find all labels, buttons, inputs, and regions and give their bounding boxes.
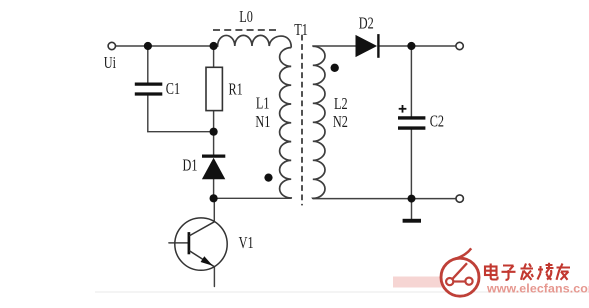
- char shao: [538, 263, 554, 280]
- svg-text:D1: D1: [183, 157, 198, 175]
- char fa: [521, 264, 534, 280]
- plus sign of C2: [399, 105, 407, 113]
- node D junction (D2 cathode / C2 top): [407, 42, 415, 50]
- phase dot secondary: [331, 64, 339, 72]
- node A junction (C1 top): [144, 42, 152, 50]
- node junction R1 top: [210, 42, 218, 50]
- svg-text:V1: V1: [239, 234, 254, 252]
- wire C2 top stub: [410, 46, 412, 116]
- wire V1 collector stub: [213, 198, 215, 222]
- wire bottom-right rail L2 to output terminal: [313, 198, 456, 200]
- diode D1: [202, 156, 225, 179]
- wire ground stub: [411, 199, 413, 219]
- watermark text dianzifashaoyou (drawn strokes): [485, 263, 570, 280]
- svg-text:C2: C2: [430, 113, 444, 131]
- svg-text:T1: T1: [294, 21, 308, 39]
- svg-text:R1: R1: [229, 81, 243, 99]
- wire L1 bottom to node C: [214, 197, 292, 199]
- transformer T1 core (dashed): [301, 35, 303, 206]
- node B junction (R1 bottom / C1): [210, 128, 218, 136]
- svg-text:L2: L2: [334, 95, 348, 113]
- inductor L0 coil: [214, 35, 292, 47]
- capacitor C2 (polarized): [398, 118, 425, 128]
- wire D1 top stub: [213, 132, 215, 155]
- faint separator line: [95, 291, 589, 293]
- node C junction (D1 bottom / L1 / V1 collector): [210, 194, 218, 202]
- watermark pink smear: [393, 277, 447, 288]
- svg-text:Ui: Ui: [104, 54, 116, 72]
- svg-text:L0: L0: [239, 8, 253, 26]
- char you: [557, 264, 571, 280]
- wire V1 emitter stub: [213, 267, 215, 287]
- wire C2 bottom stub: [410, 130, 412, 199]
- phase dot primary: [264, 174, 272, 182]
- node E junction (C2 bottom / ground): [408, 195, 416, 203]
- output terminal bottom: [456, 195, 463, 202]
- ground: [403, 219, 421, 223]
- wire L2 top to D2 anode: [313, 45, 356, 47]
- capacitor C1: [135, 84, 163, 94]
- wire C1 bottom stub: [147, 96, 149, 132]
- wire R1 bottom stub: [213, 110, 215, 131]
- input terminal Ui: [108, 42, 115, 49]
- output terminal top: [456, 42, 463, 49]
- wire D2 cathode to node D: [380, 45, 412, 47]
- svg-text:www.elecfans.com: www.elecfans.com: [486, 282, 589, 296]
- wire D1 bottom stub: [213, 179, 215, 198]
- diode D2: [356, 34, 379, 58]
- wire V1 base lead: [169, 242, 188, 244]
- wire C1 top stub: [147, 46, 149, 83]
- char dian: [485, 264, 498, 280]
- watermark logo elecfans: [441, 248, 479, 296]
- transistor V1: [175, 218, 227, 270]
- svg-text:C1: C1: [166, 80, 180, 98]
- svg-text:N2: N2: [333, 113, 348, 131]
- char zi: [502, 266, 516, 280]
- resistor R1: [206, 67, 222, 110]
- wire top rail from input to R1 node: [116, 45, 214, 47]
- dashed line above L0: [213, 29, 279, 31]
- svg-text:D2: D2: [359, 15, 374, 33]
- transformer T1 primary winding L1: [280, 48, 292, 199]
- svg-text:N1: N1: [255, 113, 270, 131]
- wire R1 top stub: [213, 46, 215, 68]
- wire node D to output terminal top: [411, 45, 455, 47]
- wire bottom-left rail C1 to node B: [148, 131, 214, 133]
- transformer T1 secondary winding L2: [313, 46, 325, 198]
- svg-text:L1: L1: [256, 95, 270, 113]
